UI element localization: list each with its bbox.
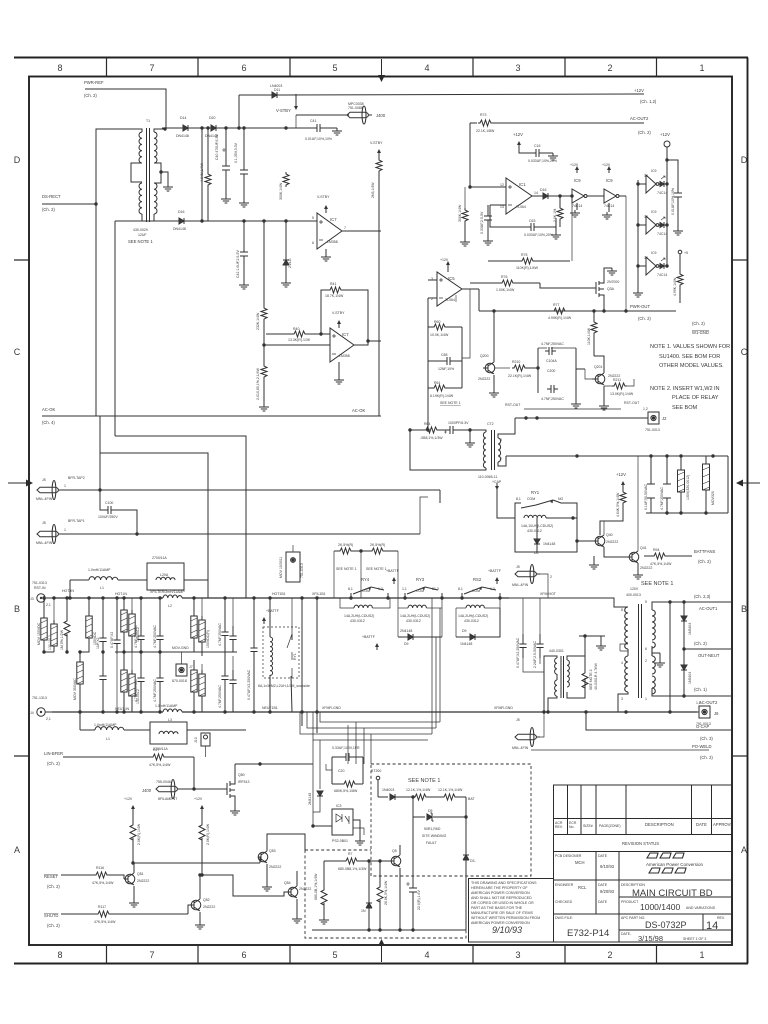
title block text: [555, 821, 733, 943]
svg-text:-0B8,1%,1/3W: -0B8,1%,1/3W: [420, 436, 443, 440]
inverter IC9a: [570, 163, 604, 217]
svg-text:TL064: TL064: [445, 298, 455, 302]
inner drawing frame: [29, 77, 732, 946]
node +12V pullup b: [194, 797, 210, 875]
svg-text:J5: J5: [42, 521, 46, 525]
svg-text:18.7K,1/4W: 18.7K,1/4W: [325, 294, 344, 298]
svg-text:9/10/93: 9/10/93: [600, 864, 615, 869]
svg-text:2-010,80,1%,2,1/4W: 2-010,80,1%,2,1/4W: [256, 367, 260, 400]
zener D5: [413, 797, 468, 845]
svg-text:0.033UF,10%,20%: 0.033UF,10%,20%: [524, 233, 553, 237]
svg-text:MOV320: MOV320: [711, 491, 715, 505]
svg-text:R211: R211: [613, 378, 621, 382]
svg-text:+5: +5: [684, 251, 688, 255]
svg-text:2N2222: 2N2222: [478, 377, 490, 381]
RC on CT2 input: [420, 421, 478, 447]
wire BFR-TAP1: [61, 533, 420, 535]
svg-text:L1: L1: [100, 586, 104, 590]
caps across xfmr: [516, 598, 544, 672]
svg-text:D20: D20: [209, 116, 215, 120]
svg-text:5: 5: [332, 63, 337, 73]
resistor R47: [149, 748, 171, 767]
svg-text:4.99K(R),1/4W: 4.99K(R),1/4W: [548, 316, 572, 320]
svg-text:L2: L2: [168, 604, 172, 608]
svg-text:2.2LG: 2.2LG: [288, 258, 292, 268]
svg-text:V-STBY: V-STBY: [370, 141, 383, 145]
capacitor C42: [236, 221, 249, 289]
svg-text:870-0018: 870-0018: [172, 679, 187, 683]
svg-text:R7: R7: [348, 852, 353, 856]
outer top border line: [14, 57, 748, 59]
MOSFET Q50: [223, 762, 313, 815]
svg-text:D16: D16: [540, 188, 546, 192]
transistor Q41: [627, 456, 652, 579]
capacitor electrolytic: [406, 817, 421, 930]
svg-text:1: 1: [699, 950, 704, 960]
svg-text:AC-OK: AC-OK: [42, 407, 55, 412]
svg-text:47K,5%,1/4W: 47K,5%,1/4W: [92, 881, 114, 885]
resistor R (4.64M): [200, 128, 211, 221]
svg-text:C63: C63: [529, 219, 535, 223]
svg-text:(Ch. 2): (Ch. 2): [638, 316, 651, 321]
svg-text:Q3A: Q3A: [607, 287, 615, 291]
svg-text:IC9: IC9: [651, 169, 657, 173]
svg-text:(Ch. 2): (Ch. 2): [47, 923, 60, 928]
svg-text:300K,1/4W: 300K,1/4W: [279, 182, 283, 200]
svg-text:5: 5: [332, 950, 337, 960]
svg-text:A: A: [14, 845, 20, 855]
svg-text:150VDC(R): 150VDC(R): [206, 630, 210, 648]
svg-text:8,1: 8,1: [516, 497, 521, 501]
svg-text:110-0065-11: 110-0065-11: [478, 475, 497, 479]
inverter IC9e: [636, 251, 668, 277]
svg-text:232K,1/4W: 232K,1/4W: [256, 312, 260, 330]
connector J10 small: [194, 733, 210, 757]
svg-text:22.0(R),1.6V: 22.0(R),1.6V: [417, 889, 421, 910]
svg-text:R40: R40: [293, 327, 299, 331]
wire to Q54: [202, 875, 288, 896]
svg-text:1: 1: [645, 697, 647, 701]
resistor bleed left: [314, 861, 329, 924]
svg-text:2N2222: 2N2222: [640, 566, 652, 570]
svg-text:2: 2: [500, 457, 502, 461]
svg-text:3: 3: [500, 438, 502, 442]
wire main bus y456: [506, 455, 728, 457]
svg-text:XFILTER/3mH/11AMP: XFILTER/3mH/11AMP: [150, 590, 185, 594]
svg-text:4: 4: [621, 661, 623, 665]
svg-text:680-0B8,1%,1/3W: 680-0B8,1%,1/3W: [338, 867, 367, 871]
battery pin BT200: [371, 769, 381, 797]
svg-text:C20: C20: [338, 769, 344, 773]
resistor 2K vert: [553, 194, 563, 227]
svg-text:SITE WINDING: SITE WINDING: [422, 834, 447, 838]
svg-text:+12V: +12V: [124, 797, 133, 801]
svg-text:2N4148: 2N4148: [400, 629, 412, 633]
wire top rail: [52, 597, 509, 599]
svg-text:+12V: +12V: [570, 163, 579, 167]
svg-text:22.1K,1/8W: 22.1K,1/8W: [476, 129, 495, 133]
diode feed: [308, 791, 323, 812]
svg-text:R47: R47: [153, 748, 159, 752]
ferrite J400: [296, 102, 386, 124]
svg-text:1,1: 1,1: [402, 587, 407, 591]
svg-text:430-0312: 430-0312: [464, 619, 479, 623]
svg-text:IRF513: IRF513: [238, 780, 250, 784]
capacitor C47: [234, 128, 249, 207]
svg-text:R61: R61: [434, 381, 440, 385]
svg-text:2N2222: 2N2222: [137, 879, 149, 883]
wire BFR-TAP2: [61, 489, 440, 491]
op-amp IC7a: [312, 195, 381, 261]
svg-text:755-0046: 755-0046: [156, 780, 171, 784]
svg-text:L3: L3: [168, 718, 172, 722]
svg-text:IC7: IC7: [342, 332, 349, 337]
resistor Rc2: [438, 788, 475, 801]
svg-text:ENGINEER: ENGINEER: [555, 883, 574, 887]
connector J6: [696, 701, 719, 726]
svg-text:4.99K,1/4W: 4.99K,1/4W: [673, 277, 677, 296]
svg-text:PS2-0B01: PS2-0B01: [332, 839, 348, 843]
svg-text:RY4: RY4: [361, 577, 370, 582]
svg-text:12.1K,1%,1/4W: 12.1K,1%,1/4W: [438, 788, 463, 792]
varistor MOV3: [73, 652, 83, 712]
svg-text:2N2222: 2N2222: [269, 865, 281, 869]
svg-text:40-0301R 4.7KW: 40-0301R 4.7KW: [594, 662, 598, 690]
svg-text:4: 4: [424, 950, 429, 960]
transistor Q53 mid: [258, 834, 305, 891]
svg-text:IC9: IC9: [574, 178, 581, 183]
svg-text:BFR-TAP1: BFR-TAP1: [68, 519, 85, 523]
svg-text:D3-: D3-: [470, 859, 476, 863]
svg-text:BATTFANS: BATTFANS: [694, 549, 716, 554]
svg-text:MANUFACTURE OR SALE OF ITEMS: MANUFACTURE OR SALE OF ITEMS: [471, 911, 534, 915]
relay RY1: [492, 480, 577, 555]
connector J3: [30, 581, 52, 607]
centre tap ground: [161, 172, 168, 184]
svg-text:CHECKED: CHECKED: [555, 900, 573, 904]
svg-text:RST-IN: RST-IN: [34, 586, 46, 590]
C63 fb cap: [490, 205, 561, 239]
svg-text:4.64M,1/4W: 4.64M,1/4W: [200, 162, 204, 182]
svg-text:1: 1: [699, 63, 704, 73]
svg-text:MAIN CIRCUIT BD: MAIN CIRCUIT BD: [632, 888, 713, 899]
thermistor pair lower: [121, 652, 127, 714]
svg-text:MCH: MCH: [575, 860, 585, 865]
capacitor bank mid lower: [134, 652, 145, 714]
outer right border line: [747, 58, 749, 964]
svg-text:R117: R117: [98, 905, 106, 909]
svg-text:R77: R77: [553, 303, 559, 307]
transistor Q200: [478, 309, 499, 397]
transistor Q51: [124, 863, 149, 907]
svg-text:(Ch. 3): (Ch. 3): [700, 736, 713, 741]
svg-text:APC PART NO.: APC PART NO.: [621, 916, 645, 920]
svg-text:0.47UF,X2,250VAC: 0.47UF,X2,250VAC: [516, 637, 520, 668]
diode D9b: [456, 608, 500, 646]
svg-text:J2: J2: [662, 416, 667, 421]
svg-text:PWR-OUT: PWR-OUT: [630, 304, 650, 309]
svg-text:DESCRIPTION: DESCRIPTION: [645, 822, 674, 827]
wire AC-OUT2: [684, 695, 732, 697]
coil L1 lower pre-filter: [68, 556, 208, 600]
svg-text:0.33UF,100V,1FR: 0.33UF,100V,1FR: [332, 746, 360, 750]
svg-text:6: 6: [645, 647, 647, 651]
svg-text:1.0mH/11AMP: 1.0mH/11AMP: [155, 704, 178, 708]
svg-text:MNL-4FIN: MNL-4FIN: [512, 583, 529, 587]
svg-text:LM358: LM358: [339, 354, 350, 358]
svg-text:LIN-BFER: LIN-BFER: [44, 751, 63, 756]
svg-text:14A,2UH(LCDUS2): 14A,2UH(LCDUS2): [458, 614, 488, 618]
capacitor right lower: [218, 652, 229, 714]
svg-text:D: D: [741, 155, 748, 165]
diode D16: [173, 210, 188, 231]
svg-text:751-0013: 751-0013: [645, 428, 660, 432]
svg-text:HOT-IN: HOT-IN: [115, 592, 127, 596]
node +12V terminal: [660, 132, 670, 169]
wire OUT-NEUT: [684, 648, 732, 650]
diode D16b: [539, 188, 552, 199]
zener D4: [361, 861, 372, 930]
inverter IC9b: [602, 163, 626, 219]
svg-text:R210: R210: [512, 360, 520, 364]
inverter IC9d: [636, 210, 668, 236]
svg-text:J5: J5: [516, 718, 520, 722]
svg-text:(Ch. 2): (Ch. 2): [700, 755, 713, 760]
svg-text:MNL-4FIN: MNL-4FIN: [36, 497, 53, 501]
resistor R210: [494, 360, 538, 378]
svg-text:XFM-HOT: XFM-HOT: [540, 592, 557, 596]
resistor Rc1: [406, 788, 442, 800]
svg-text:C41: C41: [310, 119, 316, 123]
svg-text:430-0312: 430-0312: [350, 619, 365, 623]
svg-text:2.0K(R),1/4W: 2.0K(R),1/4W: [206, 823, 210, 845]
svg-text:MOV-GND: MOV-GND: [172, 646, 189, 650]
wire +12V rail: [281, 94, 644, 95]
svg-text:BFR-TAP2: BFR-TAP2: [68, 476, 85, 480]
svg-text:D9: D9: [462, 629, 467, 633]
cap block C104A/C200: [536, 342, 585, 408]
svg-text:110K(R),1/4W: 110K(R),1/4W: [516, 266, 539, 270]
svg-text:74C14: 74C14: [657, 191, 667, 195]
resistor sense: [582, 656, 598, 694]
svg-text:+12V: +12V: [660, 132, 670, 137]
svg-text:2: 2: [607, 950, 612, 960]
svg-text:100UF/250V: 100UF/250V: [98, 515, 118, 519]
node +12V: [600, 472, 626, 535]
legal text box: [469, 879, 554, 943]
svg-text:RCL: RCL: [578, 885, 587, 890]
svg-text:0.1,35V,3.3V: 0.1,35V,3.3V: [234, 142, 238, 163]
svg-text:J400: J400: [376, 113, 386, 118]
svg-text:(Ch. 2): (Ch. 2): [42, 207, 55, 212]
svg-text:RY1: RY1: [293, 653, 297, 660]
svg-text:(Ch. 2): (Ch. 2): [694, 641, 707, 646]
svg-text:TL064: TL064: [516, 205, 526, 209]
svg-text:12NF,10%: 12NF,10%: [438, 367, 454, 371]
svg-text:No.: No.: [569, 825, 574, 829]
svg-text:751-0088: 751-0088: [348, 106, 363, 110]
svg-text:3/15/98: 3/15/98: [638, 934, 663, 943]
svg-text:XFMR-GND: XFMR-GND: [322, 706, 341, 710]
svg-text:R73: R73: [480, 113, 486, 117]
diode D11 top: [239, 94, 270, 96]
svg-text:(Ch. 2): (Ch. 2): [47, 761, 60, 766]
connector J9 aux: [279, 545, 304, 582]
svg-text:BT200: BT200: [371, 769, 381, 773]
svg-text:O-CAP: O-CAP: [696, 724, 709, 729]
svg-text:C42 1.0UF,2.5-5V: C42 1.0UF,2.5-5V: [236, 250, 240, 278]
svg-text:130V(320-0012): 130V(320-0012): [686, 475, 690, 500]
svg-text:300K,1/4W: 300K,1/4W: [458, 204, 462, 222]
zener D3: [463, 851, 476, 930]
svg-text:V-STBY: V-STBY: [276, 108, 291, 113]
resistor R7: [338, 852, 367, 871]
wire XFMR verticals: [302, 598, 317, 733]
svg-text:DATE: DATE: [598, 854, 608, 858]
svg-text:THIS DRAWING AND SPECIFICATION: THIS DRAWING AND SPECIFICATIONS: [471, 881, 537, 885]
svg-text:C16: C16: [534, 144, 540, 148]
svg-text:SEE NOTE 1: SEE NOTE 1: [408, 778, 440, 784]
svg-text:(Ch. 1): (Ch. 1): [694, 687, 707, 692]
svg-text:Q51: Q51: [137, 872, 144, 876]
fuse J400: [142, 780, 223, 802]
connector J5 BFR-TAP1: [36, 519, 85, 545]
svg-text:D14: D14: [180, 116, 186, 120]
svg-text:74C14: 74C14: [657, 273, 667, 277]
svg-text:680-0B,1%,1/4W: 680-0B,1%,1/4W: [314, 873, 318, 900]
wire AC-OUT2: [470, 122, 644, 124]
svg-text:4.64K,5%,1/4W: 4.64K,5%,1/4W: [616, 492, 620, 517]
svg-text:REV.: REV.: [555, 825, 563, 829]
svg-text:AC-OUT2: AC-OUT2: [699, 700, 718, 705]
svg-text:4: 4: [424, 63, 429, 73]
wire mid rail MOV-GND: [115, 651, 237, 653]
resistor 300K left: [458, 185, 472, 246]
svg-text:SEE NOTE 2: SEE NOTE 2: [589, 669, 593, 690]
wire: [42, 203, 96, 205]
resistor R117: [94, 905, 116, 924]
svg-text:47K,5%,1/4W: 47K,5%,1/4W: [650, 562, 672, 566]
svg-text:680K,5%,1/8W: 680K,5%,1/8W: [334, 789, 358, 793]
svg-text:1: 1: [64, 528, 66, 532]
svg-text:B: B: [741, 604, 747, 614]
svg-text:SU1400. SEE BOM FOR: SU1400. SEE BOM FOR: [659, 354, 720, 360]
svg-text:DWG FILE:: DWG FILE:: [555, 916, 573, 920]
svg-text:751-1313: 751-1313: [32, 696, 47, 700]
svg-text:IC7: IC7: [330, 217, 337, 222]
resistor R76: [470, 275, 540, 292]
wire routing: [115, 436, 246, 598]
svg-text:1000PF/6.3V: 1000PF/6.3V: [448, 421, 469, 425]
svg-text:PLACE OF RELAY: PLACE OF RELAY: [672, 395, 719, 401]
svg-text:Q54: Q54: [284, 881, 291, 885]
relay coil RY3: [398, 598, 442, 637]
svg-text:751-0313: 751-0313: [32, 581, 47, 585]
svg-text:RY1: RY1: [531, 490, 540, 495]
svg-text:0.33UF,2.5-5V: 0.33UF,2.5-5V: [480, 211, 484, 234]
svg-text:C58: C58: [441, 353, 447, 357]
svg-text:J7: J7: [189, 665, 193, 669]
svg-text:+12V: +12V: [513, 132, 523, 137]
svg-text:2K,5%(R): 2K,5%(R): [370, 543, 385, 547]
svg-text:RST-OUT: RST-OUT: [505, 403, 521, 407]
svg-text:J4: J4: [30, 711, 34, 715]
svg-text:SIZE#: SIZE#: [583, 824, 593, 828]
svg-text:4.7NF,250VAC: 4.7NF,250VAC: [218, 685, 222, 708]
svg-text:J5: J5: [42, 478, 46, 482]
svg-text:120V: 120V: [630, 587, 639, 591]
svg-text:(Ch. 2): (Ch. 2): [638, 130, 651, 135]
svg-text:3: 3: [621, 697, 623, 701]
svg-text:R64: R64: [424, 422, 430, 426]
op-amp IC5: [428, 258, 479, 306]
svg-text:+BATTF: +BATTF: [266, 609, 279, 613]
svg-text:430-0312: 430-0312: [527, 529, 542, 533]
svg-text:RS2: RS2: [473, 577, 482, 582]
svg-text:SEE BOM: SEE BOM: [672, 405, 698, 411]
wire feed verticals: [313, 740, 320, 826]
svg-text:MNL-4FIN: MNL-4FIN: [512, 746, 529, 750]
svg-text:+BATTF: +BATTF: [488, 569, 501, 573]
svg-text:SEE NOTE 1: SEE NOTE 1: [366, 567, 387, 571]
capacitor right upper: [218, 596, 229, 652]
svg-text:AC-OUT1: AC-OUT1: [699, 606, 718, 611]
svg-text:R76: R76: [501, 275, 507, 279]
outer bottom border line: [14, 963, 748, 965]
svg-text:WITHOUT WRITTEN PERMISSION FRO: WITHOUT WRITTEN PERMISSION FROM: [471, 916, 540, 920]
svg-text:7: 7: [149, 63, 154, 73]
svg-text:2,1: 2,1: [46, 603, 51, 607]
svg-text:HOT-IN: HOT-IN: [62, 589, 74, 593]
connector J5 xfmr: [512, 565, 552, 599]
svg-text:440-0301: 440-0301: [549, 649, 564, 653]
node +BATTF: [262, 609, 279, 624]
capacitor C41 series: [296, 115, 342, 141]
transformer T1: [128, 119, 204, 244]
svg-text:10.0K,1/4W: 10.0K,1/4W: [430, 333, 449, 337]
svg-text:1: 1: [64, 484, 66, 488]
svg-text:IC9: IC9: [606, 178, 613, 183]
svg-text:4.7NF,250VAC: 4.7NF,250VAC: [541, 342, 564, 346]
svg-text:D16: D16: [178, 210, 184, 214]
svg-text:1N5404: 1N5404: [688, 672, 692, 684]
svg-text:130-1513: 130-1513: [48, 635, 52, 650]
svg-text:R116: R116: [96, 866, 104, 870]
capacitor left: [480, 205, 493, 245]
svg-text:PART AS THE BASIS FOR THE: PART AS THE BASIS FOR THE: [471, 906, 523, 910]
svg-text:SEE NOTE 1: SEE NOTE 1: [440, 401, 461, 405]
svg-text:OR COPIED OR USED IN WHOLE OR: OR COPIED OR USED IN WHOLE OR: [471, 901, 534, 905]
svg-text:(Ch. 2): (Ch. 2): [692, 321, 705, 326]
svg-text:5: 5: [312, 216, 314, 220]
svg-text:IC9: IC9: [651, 210, 657, 214]
wire bottom rail: [52, 711, 697, 713]
IC5 feedback network: [426, 289, 470, 432]
svg-text:47K,5%,1/4W: 47K,5%,1/4W: [94, 920, 116, 924]
resistor V-STBY right: [370, 141, 383, 416]
svg-text:R41: R41: [330, 282, 336, 286]
svg-text:PRODUCT: PRODUCT: [621, 900, 639, 904]
op-amp IC7b: [264, 311, 381, 384]
svg-text:DATE-: DATE-: [621, 932, 632, 936]
svg-text:(Ch. 2): (Ch. 2): [698, 559, 711, 564]
wire big loop left: [96, 129, 131, 416]
svg-text:PAGE(ZONE): PAGE(ZONE): [599, 824, 621, 828]
capacitor right of stack: [667, 160, 683, 235]
svg-text:6.19K(R),1/4W: 6.19K(R),1/4W: [430, 394, 454, 398]
svg-text:7: 7: [149, 950, 154, 960]
op-amp IC1: [470, 132, 572, 214]
